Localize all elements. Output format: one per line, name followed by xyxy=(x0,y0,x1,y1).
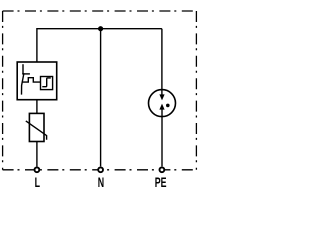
U1 indicator box xyxy=(41,77,53,90)
enclosure boundary right (dash-dot) xyxy=(195,11,197,170)
varistor RV1 body xyxy=(29,113,44,141)
U1 internal lead xyxy=(22,64,24,74)
U1 thermal tick bar xyxy=(22,73,30,75)
terminal PE xyxy=(160,167,165,172)
enclosure boundary top (dash-dot) xyxy=(3,10,197,12)
enclosure boundary left (dash-dot) xyxy=(2,11,4,170)
wire: L riser and top bus to spark gap branch xyxy=(37,29,162,62)
U1 trigger pulse link xyxy=(22,78,41,82)
wire: spark gap to PE terminal xyxy=(161,109,163,166)
U1 indicator step curve xyxy=(42,78,51,87)
terminal L xyxy=(35,167,40,172)
svg-text:N: N xyxy=(98,175,104,191)
spark gap up arrow xyxy=(159,104,164,110)
enclosure boundary bottom (dash-dot) xyxy=(3,169,197,171)
spark gap trigger dot xyxy=(166,104,170,108)
wire: varistor to L terminal xyxy=(36,142,38,167)
U1 switch blade xyxy=(22,73,24,94)
terminal N xyxy=(98,167,103,172)
disconnector box U1 xyxy=(17,62,57,100)
spark gap F1 circle xyxy=(149,90,176,117)
svg-text:PE: PE xyxy=(155,175,167,191)
wire: top bus into spark gap xyxy=(161,29,163,95)
varistor RV1 diagonal xyxy=(26,121,47,140)
wire: box to varistor xyxy=(36,100,38,114)
wire: N branch vertical xyxy=(100,29,102,167)
spark gap down arrow xyxy=(159,94,164,100)
svg-text:L: L xyxy=(35,175,40,191)
node: junction dot at N tap xyxy=(98,26,103,31)
